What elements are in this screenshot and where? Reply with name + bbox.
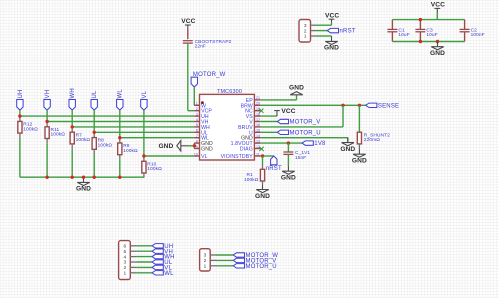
wire [419, 20, 421, 30]
VCC power symbol [181, 18, 195, 28]
node 1V8 [302, 141, 326, 147]
pin 2 [123, 265, 136, 271]
wire (BRW / SENSE rail) [261, 104, 366, 106]
svg-text:GND: GND [340, 146, 355, 153]
capacitor CBOOTSTRAP2 [183, 39, 232, 50]
node VH [44, 90, 51, 110]
node UH [152, 244, 173, 250]
svg-text:GND: GND [158, 143, 173, 150]
svg-text:UH: UH [18, 89, 24, 98]
svg-text:10: 10 [194, 152, 198, 156]
wire [391, 32, 393, 42]
svg-text:100kΩ: 100kΩ [23, 126, 38, 132]
svg-text:7: 7 [196, 134, 198, 138]
pin 10 VL [194, 152, 208, 160]
ground (left) [158, 141, 188, 151]
svg-text:220mΩ: 220mΩ [364, 137, 380, 143]
svg-text:VCC: VCC [181, 18, 195, 25]
wire [316, 30, 327, 32]
pin 3 [204, 253, 216, 259]
svg-text:GND: GND [281, 175, 296, 182]
wire [193, 87, 195, 105]
svg-text:GND: GND [289, 84, 304, 91]
svg-text:1: 1 [196, 102, 198, 106]
junction [287, 141, 290, 144]
svg-text:20: 20 [256, 102, 260, 106]
wire [436, 12, 438, 20]
svg-text:2: 2 [196, 107, 198, 111]
svg-text:10uF: 10uF [398, 32, 409, 38]
wire [144, 155, 194, 157]
svg-text:MOTOR_U: MOTOR_U [290, 130, 321, 136]
svg-text:nRST: nRST [340, 29, 356, 35]
svg-text:13: 13 [256, 139, 260, 143]
resistor R10 [142, 156, 162, 178]
wire [136, 266, 152, 268]
wire [358, 105, 360, 132]
svg-text:5: 5 [196, 123, 198, 127]
junction [45, 176, 48, 179]
junction [341, 104, 344, 107]
wire [120, 137, 194, 139]
wire [464, 32, 466, 42]
pin 8 GND [194, 139, 213, 147]
VCC power symbol [325, 12, 339, 22]
pin 20 BRW [241, 102, 261, 110]
pin 2 [311, 30, 317, 32]
svg-text:VCC: VCC [431, 2, 445, 9]
wire (bottom GND rail) [20, 176, 144, 178]
svg-text:WL: WL [118, 89, 124, 99]
svg-text:nRST: nRST [266, 166, 282, 172]
wire [94, 131, 194, 133]
svg-text:MOTOR_W: MOTOR_W [193, 72, 226, 78]
svg-text:VCC: VCC [281, 108, 295, 115]
node MOTOR_W [233, 253, 278, 259]
node MOTOR_V [233, 258, 276, 264]
svg-text:8: 8 [196, 139, 198, 143]
svg-text:14: 14 [256, 134, 260, 138]
wire [187, 29, 189, 40]
wire [71, 149, 73, 178]
node VL [152, 265, 172, 271]
svg-text:100nF: 100nF [471, 32, 485, 38]
wire [47, 121, 194, 123]
wire [262, 156, 264, 164]
svg-text:11: 11 [256, 152, 260, 156]
svg-text:6: 6 [123, 244, 126, 250]
svg-text:VH: VH [45, 90, 51, 99]
ground [340, 137, 355, 153]
wire [188, 110, 194, 112]
junction [71, 176, 74, 179]
node nRST [327, 28, 355, 34]
node WH [152, 254, 175, 260]
wire (1.8VOUT) [261, 142, 302, 144]
pin 3 [311, 24, 317, 26]
svg-text:GND: GND [76, 186, 91, 193]
svg-text:VIO/NSTDBY: VIO/NSTDBY [221, 154, 254, 160]
wire [216, 259, 233, 261]
connector J3 (3-pin) [200, 249, 211, 271]
svg-text:4: 4 [123, 254, 126, 260]
wire [20, 115, 194, 117]
svg-text:100kΩ: 100kΩ [147, 166, 162, 172]
ground [352, 149, 367, 165]
wire [136, 272, 152, 274]
node UL [91, 90, 98, 110]
wire (VS to VCC) [261, 115, 277, 117]
pin 5 [123, 249, 136, 255]
connector J1 (6-pin) [119, 241, 131, 280]
svg-text:GND: GND [352, 158, 367, 165]
svg-text:9: 9 [196, 145, 198, 149]
svg-text:GND: GND [430, 50, 445, 57]
svg-text:3: 3 [196, 112, 198, 116]
svg-text:15: 15 [256, 129, 260, 133]
svg-text:1: 1 [304, 34, 307, 40]
wire (V to MOTOR_V) [261, 121, 278, 123]
ground [255, 184, 270, 200]
svg-text:2: 2 [304, 28, 307, 34]
wire (cap bottom rail) [392, 41, 464, 43]
pin 5 WH [194, 123, 210, 131]
ground [430, 42, 445, 58]
pin 3 [123, 260, 136, 266]
node MOTOR_U [277, 130, 320, 136]
wire [464, 20, 466, 30]
junction [18, 114, 21, 117]
svg-text:4: 4 [196, 118, 198, 122]
node MOTOR_W [191, 72, 226, 87]
svg-text:1: 1 [123, 271, 126, 277]
svg-text:DIAG: DIAG [240, 147, 253, 153]
junction [82, 176, 85, 179]
wire [136, 245, 152, 247]
wire [71, 110, 73, 127]
svg-text:3: 3 [204, 253, 207, 259]
wire [19, 138, 21, 177]
junction [118, 176, 121, 179]
pin 2 VCP [194, 107, 212, 115]
svg-text:22nF: 22nF [195, 44, 206, 50]
wire [93, 110, 95, 132]
wire [187, 43, 189, 110]
svg-text:GND: GND [201, 147, 213, 153]
svg-text:100kΩ: 100kΩ [244, 177, 259, 183]
svg-text:2: 2 [204, 258, 207, 264]
pin 1 [204, 264, 216, 270]
wire [216, 265, 233, 267]
pin 4 [123, 254, 136, 260]
wire [316, 24, 332, 26]
junction [193, 144, 196, 147]
pin 4 VH [194, 118, 209, 126]
wire [216, 254, 233, 256]
wire [287, 143, 289, 152]
pin 13 1.8VOUT [231, 139, 261, 147]
svg-text:TMC6300: TMC6300 [217, 89, 242, 95]
node MOTOR_V [277, 119, 320, 125]
wire [19, 110, 21, 116]
junction [93, 131, 96, 134]
node WH [69, 88, 76, 110]
junction [436, 40, 439, 43]
node WL [117, 89, 124, 110]
resistor R9 [118, 138, 138, 160]
pin 16 BRUV [238, 123, 261, 131]
svg-text:16: 16 [256, 123, 260, 127]
wire (cap top rail) [392, 19, 464, 21]
svg-text:WH: WH [70, 88, 76, 98]
wire [93, 154, 95, 177]
connector J2 [299, 20, 311, 43]
wire [119, 110, 121, 138]
junction [261, 154, 264, 157]
svg-text:100kΩ: 100kΩ [123, 148, 138, 154]
op-amp U1 TMC6300 (IC body) [200, 89, 255, 160]
pin 15 U [249, 129, 261, 137]
svg-text:1V8: 1V8 [314, 141, 326, 147]
capacitor C3 [415, 28, 437, 39]
pin 3 UH [194, 112, 209, 120]
VCC power symbol [431, 2, 445, 12]
wire [46, 110, 48, 121]
wire [136, 261, 152, 263]
resistor R_SHUNT2 [357, 132, 390, 149]
wire (GND pin 14) [261, 137, 348, 139]
svg-text:VL: VL [201, 154, 208, 160]
wire [119, 159, 121, 177]
junction [118, 136, 121, 139]
node UH [17, 89, 24, 110]
pin 21 EP [246, 96, 261, 104]
svg-text:10uF: 10uF [426, 32, 437, 38]
pin 14 GND [241, 134, 261, 142]
svg-text:GND: GND [255, 193, 270, 200]
pin 1 [311, 35, 317, 37]
wire [316, 35, 332, 37]
wire (VIO/NSTDBY) [261, 155, 274, 157]
wire (EP to GND) [261, 99, 297, 101]
svg-text:VL: VL [142, 90, 148, 98]
svg-text:15nF: 15nF [295, 155, 306, 161]
pin 18 VS [246, 112, 261, 120]
pin 17 V [249, 118, 260, 126]
svg-text:WL: WL [164, 271, 174, 277]
node nRST [266, 156, 282, 172]
svg-text:100kΩ: 100kΩ [51, 132, 66, 138]
svg-text:MOTOR_U: MOTOR_U [246, 264, 277, 270]
resistor R12 [18, 116, 38, 138]
wire (U to MOTOR_U) [261, 131, 278, 133]
wire [188, 145, 194, 147]
svg-text:VCC: VCC [325, 12, 339, 19]
svg-text:UL: UL [92, 90, 98, 99]
junction [419, 40, 422, 43]
node VL [141, 90, 148, 110]
wire [136, 250, 152, 252]
resistor R7 [70, 127, 90, 149]
svg-text:3: 3 [123, 260, 126, 266]
svg-text:MOTOR_V: MOTOR_V [290, 120, 321, 126]
ground [324, 36, 339, 52]
svg-text:SENSE: SENSE [378, 103, 399, 109]
capacitor C1 [387, 28, 409, 39]
svg-text:1: 1 [204, 264, 207, 270]
svg-text:2: 2 [123, 265, 126, 271]
resistor R1 [244, 164, 265, 184]
svg-text:3: 3 [304, 23, 307, 29]
junction [142, 154, 145, 157]
wire [136, 256, 152, 258]
svg-text:100kΩ: 100kΩ [98, 143, 113, 149]
ground (up) [289, 84, 304, 94]
svg-text:100kΩ: 100kΩ [76, 137, 91, 143]
pin 19 NC [245, 107, 261, 115]
wire [72, 126, 194, 128]
junction [93, 176, 96, 179]
wire [46, 143, 48, 177]
wire [193, 143, 195, 148]
svg-text:GND: GND [324, 45, 339, 52]
wire [287, 154, 289, 166]
junction [45, 120, 48, 123]
wire [391, 20, 393, 30]
junction [71, 125, 74, 128]
wire [143, 110, 145, 156]
pin 9 GND [194, 145, 213, 153]
pin 6 UL [194, 129, 208, 137]
capacitor C2 [460, 28, 485, 39]
svg-text:6: 6 [196, 129, 198, 133]
ground [76, 177, 91, 193]
no-connect NC pin 19 [259, 109, 263, 113]
node SENSE [366, 103, 400, 109]
node MOTOR_U [233, 264, 276, 270]
pin 11 VIO/NSTDBY [221, 152, 261, 160]
junction [358, 104, 361, 107]
ground [281, 166, 296, 182]
node VH [152, 249, 173, 255]
wire (BRUV to sense rail) [261, 126, 343, 128]
no-connect DIAG pin 12 [259, 147, 263, 151]
pin 6 [123, 244, 136, 250]
capacitor C_1V1 [283, 150, 310, 161]
pin 1 [123, 271, 136, 277]
junction [419, 18, 422, 21]
pin 1 W [194, 102, 206, 110]
svg-text:21: 21 [256, 96, 260, 100]
node UL [152, 260, 173, 266]
pin 7 WL [194, 134, 209, 142]
node WL [152, 271, 174, 277]
resistor R11 [45, 122, 65, 144]
svg-text:5: 5 [123, 249, 126, 255]
pin 2 [204, 258, 216, 264]
resistor R8 [92, 132, 112, 154]
wire [419, 32, 421, 42]
pin 12 DIAG [240, 145, 261, 153]
svg-text:17: 17 [256, 118, 260, 122]
